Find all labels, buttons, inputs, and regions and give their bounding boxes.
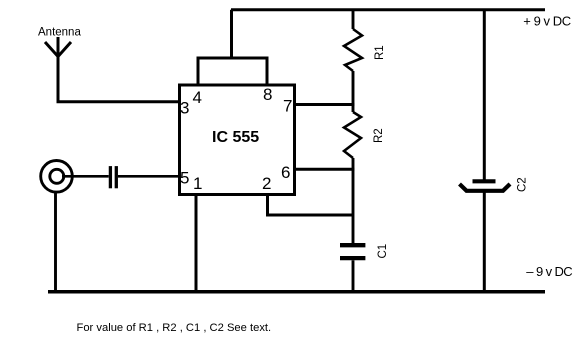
capacitor C2 <box>460 181 511 191</box>
wire R1 to R2 <box>352 71 355 112</box>
wire -9V bottom rail <box>48 290 545 294</box>
svg-text:R2: R2 <box>373 128 385 143</box>
svg-text:– 9 v DC: – 9 v DC <box>526 264 572 279</box>
wire C1 to -9V rail <box>352 260 355 292</box>
svg-text:C1: C1 <box>377 244 389 259</box>
wire +9V rail to R1 <box>352 10 355 29</box>
microphone jack J1 inner <box>50 169 64 183</box>
resistor R2 <box>344 112 361 158</box>
svg-text:3: 3 <box>180 99 189 118</box>
svg-text:7: 7 <box>283 97 292 116</box>
wire +9V top rail <box>231 8 545 11</box>
svg-text:2: 2 <box>262 174 271 193</box>
capacitor C3 coupling <box>110 166 116 188</box>
svg-text:IC 555: IC 555 <box>212 129 259 146</box>
wire riser from +9V rail to pins 4/8 <box>230 10 233 60</box>
wire R2 to C1 <box>352 158 355 243</box>
wire jack to -9V rail <box>54 191 57 293</box>
wire antenna to pin 3 <box>57 100 180 103</box>
svg-text:Antenna: Antenna <box>38 27 81 39</box>
antenna <box>45 37 71 102</box>
wire pin 6 to R2/C1 node <box>295 168 355 171</box>
wire +9V rail to C2 <box>483 10 486 183</box>
svg-text:6: 6 <box>281 163 290 182</box>
wire pin 7 to R1/R2 node <box>295 103 355 106</box>
svg-text:4: 4 <box>193 88 202 107</box>
wire pin 2 to C1 node <box>268 195 354 216</box>
IC U1 (555) box <box>180 85 295 195</box>
resistor R1 <box>344 29 362 71</box>
svg-text:8: 8 <box>263 85 272 104</box>
svg-text:For value of R1 , R2 , C1 , C2: For value of R1 , R2 , C1 , C2 See text. <box>77 322 272 334</box>
wire C2 to -9V rail <box>483 191 486 293</box>
svg-text:+ 9 v DC: + 9 v DC <box>523 14 570 29</box>
capacitor C1 <box>340 245 365 258</box>
wire jack to C3 <box>62 175 109 178</box>
svg-text:C2: C2 <box>517 177 529 192</box>
microphone jack J1 outer <box>41 161 73 193</box>
wire pin 1 to -9V rail <box>195 195 198 293</box>
svg-text:1: 1 <box>193 174 202 193</box>
svg-text:5: 5 <box>180 169 189 188</box>
wire staple pin4 to pin8 <box>198 58 267 86</box>
wire C3 to pin 5 <box>118 175 179 178</box>
svg-text:R1: R1 <box>374 45 386 60</box>
